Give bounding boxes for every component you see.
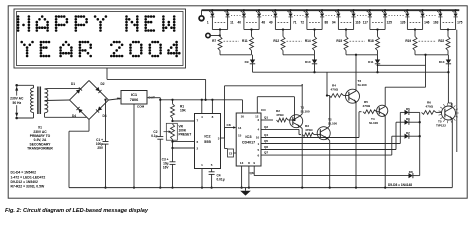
wire IC3 pin8 to ground rail xyxy=(248,166,250,188)
svg-text:IC3: IC3 xyxy=(245,134,252,139)
svg-text:R7-R22 = 330Ω, 0.5W: R7-R22 = 330Ω, 0.5W xyxy=(11,185,46,189)
svg-text:1-472 = LED1-LED472: 1-472 = LED1-LED472 xyxy=(11,175,46,179)
LED group 7 left LED 126 xyxy=(406,10,408,14)
resistor R4 470Ω to T3 base xyxy=(329,94,344,98)
svg-text:D4: D4 xyxy=(72,114,76,118)
resistor R14 xyxy=(313,37,317,51)
svg-text:7: 7 xyxy=(197,119,199,123)
svg-text:D3: D3 xyxy=(103,114,107,118)
wire T3 collector to LED rail segment 3 xyxy=(355,89,357,91)
resistor R6 470Ω xyxy=(422,111,437,115)
svg-text:0.01µ: 0.01µ xyxy=(217,178,225,182)
svg-text:163: 163 xyxy=(433,21,439,25)
junction dot VR-pin6 node xyxy=(171,140,173,142)
svg-text:D2: D2 xyxy=(101,82,105,86)
wire display panel common to +6V rail xyxy=(106,68,108,79)
svg-text:D11: D11 xyxy=(368,60,374,64)
svg-text:Q7: Q7 xyxy=(264,151,268,155)
svg-text:R11: R11 xyxy=(242,39,248,43)
transformer X1 secondary winding xyxy=(45,89,48,93)
wire T4 collector xyxy=(384,105,386,107)
outer border frame of schematic xyxy=(8,6,467,198)
preset VR 100K xyxy=(171,124,175,140)
svg-text:7806: 7806 xyxy=(130,98,138,102)
dot-matrix text YEAR 2004 (row 2) xyxy=(20,41,23,44)
svg-text:470Ω: 470Ω xyxy=(276,113,284,117)
wire D11 cathode to segment-4 feed xyxy=(378,64,426,66)
junction dot C4 bottom rail xyxy=(210,186,212,188)
wire IC3 CO pin12 to T1 base node xyxy=(256,97,258,113)
LED group 8 right LED 175 xyxy=(455,10,457,14)
junction dot pin8 rail xyxy=(211,99,213,101)
wire IC1 COM to ground rail xyxy=(133,104,135,188)
bridge diode D3 xyxy=(98,106,102,110)
dashed continuation R19-R22 xyxy=(419,40,436,42)
junction dot pin1 rail xyxy=(201,186,203,188)
LED group 4 right LED 88 xyxy=(321,10,323,14)
diode D8 xyxy=(409,173,413,178)
junction dot D7 bus xyxy=(419,135,421,137)
svg-text:1: 1 xyxy=(201,163,203,167)
junction dot pin13 rail xyxy=(240,186,242,188)
svg-text:94: 94 xyxy=(332,21,336,25)
transistor T1 SL100 xyxy=(290,115,303,128)
svg-text:SL100: SL100 xyxy=(358,83,367,87)
diode D6 xyxy=(405,120,409,125)
svg-text:14: 14 xyxy=(238,126,242,130)
svg-text:5: 5 xyxy=(211,163,213,167)
svg-text:16V: 16V xyxy=(163,165,170,169)
resistor R11 xyxy=(250,37,254,51)
dotted continuation between LED groups 7 and 8 xyxy=(426,15,437,17)
transistor T4 SL100 xyxy=(377,105,388,116)
svg-text:50 Hz: 50 Hz xyxy=(12,101,21,105)
LED group 2 left LED 40 xyxy=(243,10,245,14)
AC input node bottom xyxy=(15,117,18,120)
resistor R19 xyxy=(413,37,417,51)
svg-text:555: 555 xyxy=(204,139,211,144)
net Q4 from IC3 pin10 to R5 xyxy=(261,137,359,139)
wire node to IC2 pin 2 xyxy=(172,142,174,148)
dotted continuation between LED groups 3 and 4 xyxy=(294,15,303,17)
terminal B to R7 xyxy=(206,33,210,37)
svg-text:D13: D13 xyxy=(439,60,445,64)
svg-text:D7: D7 xyxy=(406,131,410,135)
junction dot T3 emitter rail xyxy=(355,186,357,188)
svg-text:R14: R14 xyxy=(305,39,311,43)
junction dot IC1 COM rail xyxy=(133,186,135,188)
svg-text:72: 72 xyxy=(301,21,305,25)
wire T1 emitter to ground rail xyxy=(300,126,303,128)
svg-text:117: 117 xyxy=(363,21,368,25)
LED rail segment 3 xyxy=(346,54,378,56)
svg-text:9: 9 xyxy=(253,161,255,165)
diode D11 xyxy=(375,60,380,64)
svg-text:CK: CK xyxy=(227,123,232,127)
net Q2 from IC3 pin4 xyxy=(261,128,299,130)
transformer X1 core xyxy=(37,87,39,115)
svg-text:5: 5 xyxy=(258,148,260,152)
junction dot D10 on row bus xyxy=(313,71,315,73)
junction dot T2 emitter rail xyxy=(329,186,331,188)
LED group 2 right LED 48 xyxy=(258,10,260,14)
wire VR bottom to IC2 pin 6 xyxy=(172,140,174,142)
wire R3 to T2 base xyxy=(314,134,320,136)
wire pin3 line across to T1 collector xyxy=(225,85,303,87)
resistor R12 xyxy=(281,37,285,51)
junction dot C3 bottom rail xyxy=(171,186,173,188)
svg-text:88: 88 xyxy=(325,21,329,25)
transformer X1 primary winding xyxy=(31,88,34,92)
diode D13 xyxy=(446,60,451,64)
wire IC2 pin8 to +6V rail xyxy=(211,100,213,114)
wire T1 collector xyxy=(300,114,303,116)
svg-text:TRANSFORMER: TRANSFORMER xyxy=(27,147,53,151)
LED rail segment 2 xyxy=(283,54,315,56)
junction dot display wire on +6V rail xyxy=(204,99,206,101)
net Q8 from IC3 pin9 to diode D8 xyxy=(253,166,255,176)
wire IC2 pin4 to +6V rail xyxy=(201,100,203,114)
svg-text:D1: D1 xyxy=(71,82,75,86)
wire clock CK to IC3 pin 14 xyxy=(225,127,234,129)
svg-text:15: 15 xyxy=(238,133,242,137)
resistor R5 470Ω to T4 base xyxy=(363,110,377,114)
diode D10 xyxy=(312,60,317,64)
junction dot segment3 mid xyxy=(355,54,357,56)
svg-text:R19: R19 xyxy=(405,39,411,43)
junction dot CO at T1 base line xyxy=(293,119,295,121)
bridge diode D4 xyxy=(78,109,82,113)
svg-text:6: 6 xyxy=(258,153,260,157)
wire secondary top to bridge xyxy=(45,88,48,90)
bridge rectifier outline xyxy=(70,81,109,120)
capacitor C2 0.1u xyxy=(159,100,161,137)
svg-text:Fig. 2: Circuit diagram of LED: Fig. 2: Circuit diagram of LED-based mes… xyxy=(5,208,149,214)
capacitor C1 100u 25V xyxy=(105,100,107,142)
label 230V AC 50Hz xyxy=(9,96,25,106)
svg-text:40: 40 xyxy=(238,21,242,25)
dashed continuation R15-R18 xyxy=(350,40,366,42)
row bus wire to T5 collector xyxy=(253,71,449,73)
svg-text:2: 2 xyxy=(258,118,260,122)
LED group 3 cathode loop xyxy=(274,17,276,30)
net Q1 from IC3 pin2 xyxy=(261,119,273,121)
net Q6 from IC3 pin5 to diode D6 xyxy=(261,149,396,151)
svg-text:D9: D9 xyxy=(245,60,249,64)
LED group 6 right LED 125 xyxy=(384,10,386,14)
voltage regulator IC1 7806 xyxy=(121,91,147,105)
junction dot C2 bottom rail xyxy=(159,186,161,188)
wire bridge positive output to IC1 input xyxy=(109,99,122,101)
junction dot T4 emitter rail xyxy=(384,186,386,188)
svg-text:3: 3 xyxy=(218,136,220,140)
svg-text:IC1: IC1 xyxy=(131,92,138,97)
diode D9 xyxy=(250,60,255,64)
svg-text:Q2: Q2 xyxy=(264,125,268,129)
svg-text:8: 8 xyxy=(212,115,214,119)
junction dot segment4 mid xyxy=(424,54,426,56)
svg-text:IC2: IC2 xyxy=(204,134,211,139)
capacitor C5 (reset network) xyxy=(224,138,226,149)
svg-text:SL100: SL100 xyxy=(369,121,378,125)
svg-text:4: 4 xyxy=(258,127,260,131)
transistor T3 SL100 xyxy=(346,89,360,103)
junction dot C2 top xyxy=(159,99,161,101)
svg-text:470Ω: 470Ω xyxy=(426,105,434,109)
wire T4 emitter to ground rail xyxy=(384,115,386,117)
svg-text:C5: C5 xyxy=(229,152,233,156)
junction dot R4 tap xyxy=(326,94,328,96)
dotted continuation between LED groups 5 and 6 xyxy=(357,15,366,17)
svg-text:16: 16 xyxy=(241,115,245,119)
ground rail 0V xyxy=(69,187,452,189)
LED group 2 cathode loop xyxy=(243,17,245,30)
svg-text:D8: D8 xyxy=(409,170,413,174)
svg-text:470Ω: 470Ω xyxy=(305,128,313,132)
capacitor C4 0.01u xyxy=(211,169,213,172)
svg-text:R18: R18 xyxy=(368,39,374,43)
wire R1 bottom to IC2 pin 7 xyxy=(172,118,174,121)
timer IC2 555 xyxy=(195,114,221,169)
net Q7 from IC3 pin6 to diode D7 xyxy=(261,154,392,156)
dot-matrix text HAPPY NEW (row 1) xyxy=(17,15,20,18)
junction dot pin2 node xyxy=(171,147,173,149)
wire T2 emitter to ground rail xyxy=(327,138,330,140)
svg-text:Q6: Q6 xyxy=(264,145,268,149)
wire AC bottom to primary xyxy=(17,117,34,119)
wire T5 collector xyxy=(451,106,453,108)
ground symbol xyxy=(245,188,247,191)
LED group 7 right LED 146 xyxy=(422,10,424,14)
LED group 5 right LED 116 xyxy=(353,10,355,14)
svg-text:470Ω: 470Ω xyxy=(331,88,339,92)
svg-text:CD4017: CD4017 xyxy=(242,140,255,144)
wire secondary centre tap to bridge left corner xyxy=(45,99,70,102)
dotted continuation between LED groups 1 and 2 xyxy=(231,15,240,17)
junction dot R1-VR node xyxy=(171,120,173,122)
svg-text:10K: 10K xyxy=(180,109,187,113)
svg-text:470Ω: 470Ω xyxy=(363,104,371,108)
svg-text:D5: D5 xyxy=(406,107,410,111)
anode bus wire xyxy=(202,9,460,11)
svg-text:71: 71 xyxy=(293,21,297,25)
junction dot C1 top xyxy=(104,99,106,101)
net Q5 from IC3 pin1 to diode D5 xyxy=(261,143,400,145)
wire bridge negative output to ground rail xyxy=(88,120,90,132)
LED group 4 left LED 72 xyxy=(306,10,308,14)
LED group 1 left LED 1 xyxy=(211,10,213,14)
resistor R15 xyxy=(344,37,348,51)
junction dot D11 on row bus xyxy=(376,71,378,73)
LED group 5 cathode loop xyxy=(337,17,339,30)
wire D8 cathode up the cathode bus xyxy=(413,175,420,177)
transistor T2 SL100 xyxy=(317,127,330,140)
LED group 4 cathode loop xyxy=(306,17,308,30)
junction dot pin8 rail xyxy=(248,186,250,188)
svg-text:D1-D4 = 1N5402: D1-D4 = 1N5402 xyxy=(11,171,37,175)
wire T5 emitter to ground rail xyxy=(451,118,453,120)
svg-text:TIP122: TIP122 xyxy=(436,124,446,128)
svg-text:49: 49 xyxy=(269,21,273,25)
resistor R22 xyxy=(446,37,450,51)
dotted continuation between LED groups 4 and 5 xyxy=(326,15,335,17)
svg-text:4: 4 xyxy=(201,115,203,119)
svg-text:Q1: Q1 xyxy=(264,116,268,120)
svg-text:R22: R22 xyxy=(438,39,444,43)
svg-text:R15: R15 xyxy=(336,39,342,43)
svg-text:COM: COM xyxy=(137,105,145,109)
wire IC3 pin13 to ground rail xyxy=(241,166,243,188)
svg-text:D6: D6 xyxy=(406,117,410,121)
wire D6 cathode to bus xyxy=(409,121,420,123)
wire secondary bottom to bridge lower edge xyxy=(44,113,46,118)
junction dot T1 emitter rail xyxy=(301,186,303,188)
terminal A to display anode bus xyxy=(199,16,204,21)
AC input double-headed arrow xyxy=(16,90,18,114)
svg-text:11: 11 xyxy=(230,21,234,25)
svg-text:R7: R7 xyxy=(212,39,216,43)
wire D7 cathode to bus xyxy=(409,135,420,137)
svg-text:13: 13 xyxy=(240,161,244,165)
junction dot terminal B node xyxy=(219,34,221,36)
svg-text:116: 116 xyxy=(355,21,360,25)
resistor R2 470Ω xyxy=(277,118,289,122)
wire D9 cathode to row bus xyxy=(252,64,254,72)
bridge diode D1 xyxy=(76,89,80,93)
svg-text:1: 1 xyxy=(207,21,209,25)
resistor R3 470Ω xyxy=(303,133,315,137)
svg-text:6: 6 xyxy=(197,140,199,144)
LED group 3 right LED 71 xyxy=(290,10,292,14)
wire D5 cathode to R6 node xyxy=(409,111,420,113)
svg-text:25V: 25V xyxy=(97,146,104,150)
resistor R7 xyxy=(218,37,222,51)
svg-text:D9-D12 = 1N5402: D9-D12 = 1N5402 xyxy=(11,180,39,184)
wire T3 emitter to ground rail xyxy=(355,101,357,103)
svg-text:CO: CO xyxy=(261,108,266,112)
svg-text:1: 1 xyxy=(258,142,260,146)
dotted continuation between LED groups 2 and 3 xyxy=(263,15,272,17)
svg-text:PRESET: PRESET xyxy=(179,132,192,136)
LED group 6 left LED 117 xyxy=(369,10,371,14)
svg-text:48: 48 xyxy=(262,21,266,25)
transistor T5 TIP122 xyxy=(442,106,456,120)
svg-text:8: 8 xyxy=(248,161,250,165)
LED group 8 cathode loop xyxy=(439,17,441,30)
wire IC2 pin1 to ground rail xyxy=(201,169,203,188)
diode D7 xyxy=(405,134,409,139)
junction dot T5 collector on row bus xyxy=(447,71,449,73)
dashed continuation R12-R14 xyxy=(287,40,303,42)
wire IC1 OUT +6V rail to IC3 pin16 xyxy=(147,97,160,99)
LED group 8 left LED 163 xyxy=(439,10,441,14)
wire AC top to primary xyxy=(17,84,34,86)
LED group 1 cathode loop xyxy=(211,17,213,30)
message display panel box (double border) xyxy=(14,9,186,68)
diode D5 xyxy=(405,110,409,115)
resistor R1 10K xyxy=(171,104,175,118)
svg-text:0.1µ: 0.1µ xyxy=(151,134,157,138)
wire R2 to T1 base xyxy=(288,119,293,121)
svg-text:D10: D10 xyxy=(305,60,311,64)
wire T2 collector xyxy=(327,126,330,128)
junction dot R1 top on +6V rail xyxy=(171,99,173,101)
resistor R18 xyxy=(376,37,380,51)
wire display return line right side xyxy=(456,30,458,152)
LED group 1 right LED 11 xyxy=(227,10,229,14)
bridge diode D2 xyxy=(95,87,99,91)
dotted continuation between LED groups 6 and 7 xyxy=(389,15,404,17)
svg-text:125: 125 xyxy=(387,21,393,25)
svg-text:146: 146 xyxy=(424,21,430,25)
svg-text:R12: R12 xyxy=(273,39,279,43)
LED rail segment 1 xyxy=(220,54,252,56)
LED group 5 left LED 94 xyxy=(337,10,339,14)
svg-text:175: 175 xyxy=(457,21,463,25)
junction dot D6 bus xyxy=(419,121,421,123)
LED group 7 cathode loop xyxy=(406,17,408,30)
wire R6 to T5 base xyxy=(436,111,442,113)
svg-text:10: 10 xyxy=(256,136,260,140)
wire IC2 pin3 output xyxy=(221,137,225,139)
svg-text:126: 126 xyxy=(400,21,406,25)
LED group 3 left LED 49 xyxy=(274,10,276,14)
svg-text:2: 2 xyxy=(197,147,199,151)
junction dot C1 bottom rail xyxy=(104,186,106,188)
LED group 6 cathode loop xyxy=(369,17,371,30)
capacitor C3 10u 16V xyxy=(172,148,174,162)
AC input node top xyxy=(15,84,18,87)
svg-text:Q5: Q5 xyxy=(264,139,268,143)
svg-text:Q8: Q8 xyxy=(250,171,254,175)
dashed continuation R7-R11 xyxy=(224,40,240,42)
counter IC3 CD4017 xyxy=(236,113,261,166)
LED rail segment 4 xyxy=(415,54,448,56)
svg-text:Q4: Q4 xyxy=(264,133,268,137)
junction dot pin4 rail xyxy=(201,99,203,101)
svg-text:D5-D8 = 1N4148: D5-D8 = 1N4148 xyxy=(388,183,412,187)
